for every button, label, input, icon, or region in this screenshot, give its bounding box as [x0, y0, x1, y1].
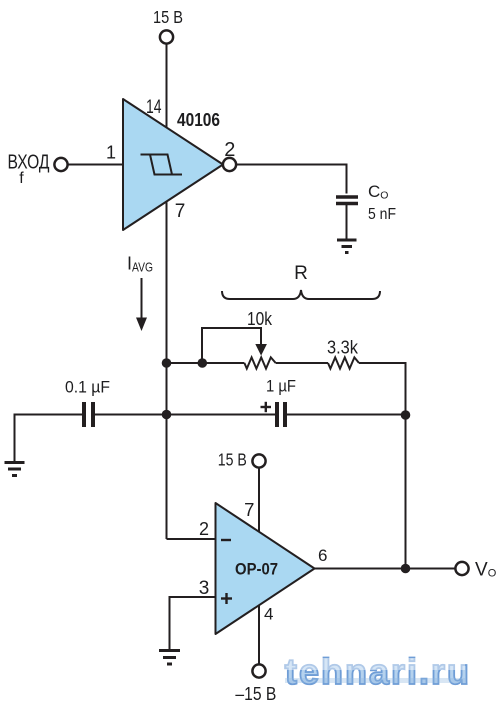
inverter U1 40106 triangle: [123, 99, 223, 230]
op-amp U2 OP-07 triangle: [216, 503, 315, 634]
op-amp minus sign: [221, 539, 231, 541]
op-amp supply terminal circle: [252, 454, 265, 467]
wire 1uF to right vertical: [287, 414, 406, 416]
svg-text:6: 6: [318, 546, 327, 565]
svg-text:40106: 40106: [177, 109, 220, 130]
pot wiper arrowhead: [255, 344, 267, 356]
ground (op-amp pin 3): [159, 651, 180, 665]
wire 0.1uF to 1uF: [95, 414, 275, 416]
inverter output bubble: [223, 158, 236, 171]
wire op-amp pin 4 to -15V: [258, 605, 260, 665]
ground (under Co): [337, 240, 357, 253]
watermark tehnari.ru: [285, 651, 471, 692]
resistor 3.3k zigzag: [328, 357, 359, 368]
wire op-amp pin 7 supply: [258, 467, 260, 532]
-15V terminal circle: [252, 664, 265, 677]
wire supply to inverter pin 14: [166, 43, 168, 128]
svg-text:4: 4: [264, 605, 273, 624]
svg-text:tehnari.ru: tehnari.ru: [285, 651, 471, 692]
svg-text:CO: CO: [368, 182, 388, 202]
node: wiper junction dot: [198, 358, 208, 368]
ground (left, under 0.1uF): [5, 463, 25, 476]
supply terminal circle: [160, 30, 173, 43]
svg-text:10k: 10k: [247, 309, 273, 329]
wire op-amp output: [315, 568, 456, 570]
input terminal circle: [54, 158, 67, 171]
plus sign for 1uF: [261, 402, 272, 412]
svg-text:f: f: [19, 170, 24, 187]
svg-text:2: 2: [199, 519, 209, 539]
svg-text:7: 7: [244, 499, 254, 520]
wire ground to 0.1uF cap: [15, 415, 83, 462]
svg-text:2: 2: [224, 139, 235, 161]
capacitor 0.1uF plates: [84, 402, 93, 427]
node: junction dot on main vertical at bus: [162, 410, 172, 420]
node: output junction dot: [401, 564, 411, 574]
wire left to pot: [167, 362, 245, 364]
wire input to pin 1: [67, 164, 123, 166]
resistor 10k (pot body) zigzag: [244, 357, 275, 368]
svg-text:VO: VO: [475, 560, 497, 581]
brace over R network: [222, 290, 380, 299]
op-amp plus sign: [221, 593, 232, 604]
wire pot wiper: [202, 328, 261, 363]
wire main vertical to op-amp pin 2: [167, 538, 216, 540]
label ВХОД f (input): [8, 152, 50, 188]
wire pin 7 down (main vertical): [166, 202, 168, 540]
svg-text:ВХОД: ВХОД: [8, 152, 50, 174]
capacitor 1uF plates: [277, 402, 285, 427]
wire op-amp pin 3 to ground: [170, 597, 216, 649]
svg-text:IAVG: IAVG: [127, 254, 153, 275]
svg-text:15 В: 15 В: [153, 7, 183, 27]
wire 3.3k to right vertical: [359, 363, 406, 569]
wire inverter output to Co: [236, 165, 347, 194]
Iavg current arrow: [136, 278, 147, 331]
svg-text:7: 7: [175, 201, 186, 222]
wire Co to ground: [346, 205, 348, 239]
svg-text:3: 3: [199, 578, 210, 599]
svg-text:15 В: 15 В: [218, 450, 247, 470]
output terminal circle: [455, 562, 468, 575]
svg-text:1: 1: [106, 143, 116, 163]
svg-text:OP-07: OP-07: [235, 560, 278, 579]
svg-text:R: R: [294, 263, 308, 284]
node: right vertical bus junction dot: [401, 410, 411, 420]
node: main vertical / resistor row junction dot: [162, 358, 172, 368]
svg-text:1 µF: 1 µF: [266, 377, 296, 396]
svg-text:3.3k: 3.3k: [327, 338, 359, 358]
svg-text:14: 14: [146, 97, 162, 118]
wire between resistors: [276, 362, 328, 364]
hysteresis symbol: [141, 155, 183, 175]
capacitor Co plates: [336, 197, 358, 204]
svg-text:0.1 µF: 0.1 µF: [65, 378, 110, 397]
svg-text:5 nF: 5 nF: [368, 206, 396, 223]
svg-text:–15 В: –15 В: [235, 684, 276, 704]
